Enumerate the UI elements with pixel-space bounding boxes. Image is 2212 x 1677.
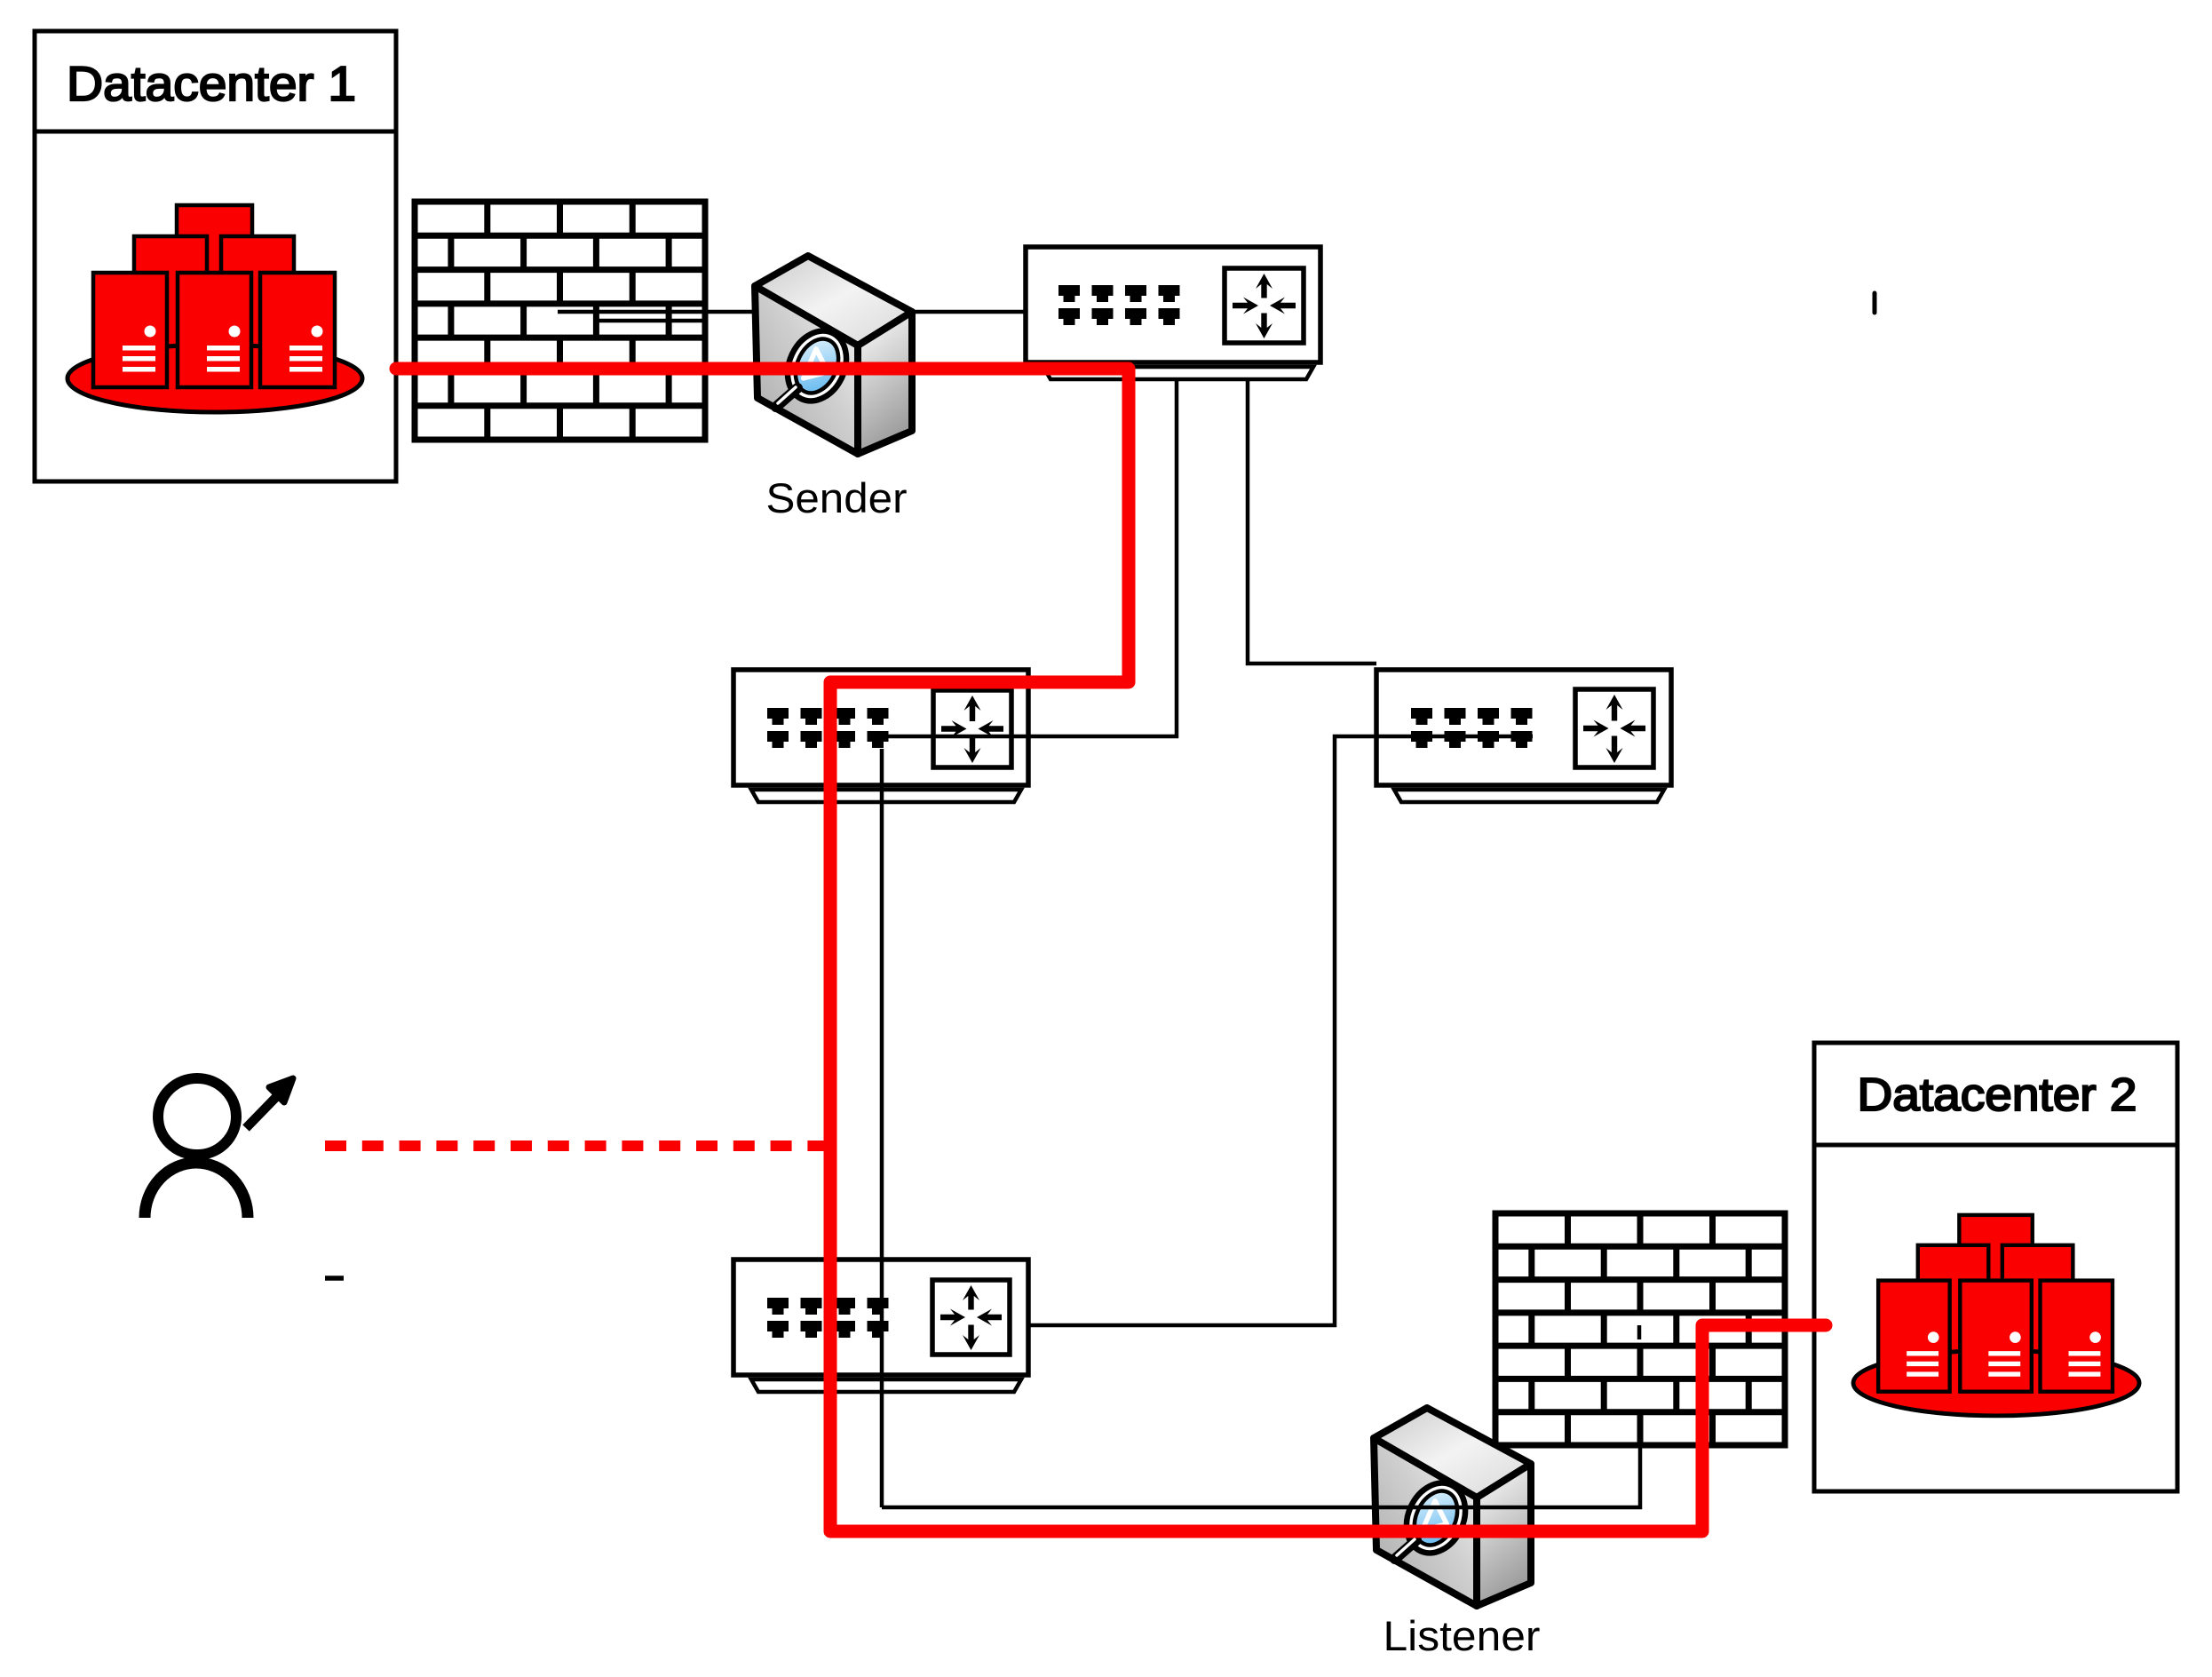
svg-text:Listener: Listener bbox=[1383, 1612, 1541, 1659]
svg-text:Datacenter 2: Datacenter 2 bbox=[1858, 1069, 2137, 1121]
svg-text:Sender: Sender bbox=[766, 474, 908, 521]
svg-text:Datacenter 1: Datacenter 1 bbox=[67, 56, 356, 111]
